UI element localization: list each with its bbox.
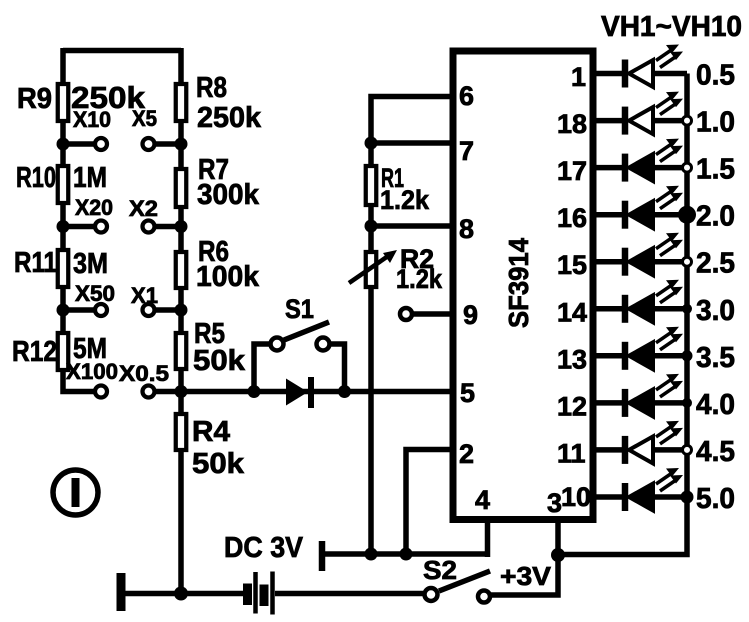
junction bus row 3.0 xyxy=(682,304,692,314)
wire pin stub row 4.5 xyxy=(593,447,622,453)
LED VH8 xyxy=(625,374,683,417)
svg-text:4.5: 4.5 xyxy=(696,436,735,468)
junction bus row 2.5 xyxy=(683,257,692,266)
potentiometer R2 xyxy=(349,250,397,287)
svg-text:R11: R11 xyxy=(14,247,57,279)
svg-text:50k: 50k xyxy=(193,345,246,377)
resistor R11 xyxy=(58,250,69,287)
wire pin stub row 2.5 xyxy=(593,259,622,265)
svg-text:1.0: 1.0 xyxy=(696,107,735,139)
wire tap X1 xyxy=(155,307,182,313)
wire tap X20 xyxy=(63,224,95,230)
svg-text:R10: R10 xyxy=(16,162,56,194)
svg-text:+3V: +3V xyxy=(500,561,552,591)
wire ground to battery xyxy=(121,591,243,597)
wire LED VH7 to bus xyxy=(655,353,687,359)
LED VH9 xyxy=(625,421,683,464)
wire left column (R9-R12 chain) xyxy=(63,48,95,392)
junction on left column at X10 xyxy=(57,138,70,151)
svg-text:9: 9 xyxy=(463,300,478,330)
svg-text:2: 2 xyxy=(459,439,474,469)
svg-text:17: 17 xyxy=(557,156,587,186)
svg-text:4.0: 4.0 xyxy=(696,389,735,421)
figure number (1) xyxy=(53,470,98,515)
svg-text:300k: 300k xyxy=(197,179,260,211)
resistor R7 xyxy=(176,169,187,207)
wire pin stub row 1.0 xyxy=(593,118,622,124)
svg-text:S2: S2 xyxy=(423,555,457,585)
wire pin stub row 5.0 xyxy=(593,494,622,500)
terminal circle X20 xyxy=(95,221,107,233)
wire right column (R8-R5-R4 chain) xyxy=(178,48,184,594)
LED VH7 xyxy=(625,327,683,370)
junction on right column at X2 xyxy=(175,220,188,233)
wire LED VH10 to bus xyxy=(655,494,687,500)
wire LED VH9 to bus xyxy=(655,447,687,453)
resistor R10 xyxy=(58,166,69,203)
diode VD1 xyxy=(286,377,311,408)
wire LED VH1 to bus xyxy=(655,71,687,77)
resistor R6 xyxy=(176,252,187,288)
terminal circle X1 xyxy=(143,304,155,316)
LED VH4 xyxy=(625,186,683,229)
svg-text:250k: 250k xyxy=(197,102,262,134)
node R1 top (pins 6,7) xyxy=(365,137,378,150)
junction bus row 1.5 xyxy=(683,163,692,172)
resistor R12 xyxy=(58,333,69,370)
junction S1 right on main wire xyxy=(338,385,351,398)
svg-text:7: 7 xyxy=(459,136,474,166)
wire IC pin 6 to R1 top node xyxy=(371,97,453,141)
svg-text:1.2k: 1.2k xyxy=(380,185,430,215)
svg-text:R12: R12 xyxy=(12,336,57,368)
terminal bar left of supply rail xyxy=(319,541,326,571)
resistor R8 xyxy=(176,84,187,121)
svg-text:5.0: 5.0 xyxy=(696,483,735,515)
svg-text:0.5: 0.5 xyxy=(696,60,735,92)
svg-text:1.2k: 1.2k xyxy=(396,264,443,294)
junction S1 left on main wire xyxy=(248,385,261,398)
node R1 bottom / R2 top (pin 8) xyxy=(365,220,378,233)
svg-text:11: 11 xyxy=(557,438,586,468)
terminal circle X50 xyxy=(95,304,107,316)
wire S1 left branch xyxy=(254,344,269,392)
wire LED VH6 to bus xyxy=(655,306,687,312)
svg-text:3.0: 3.0 xyxy=(696,295,735,327)
svg-text:3: 3 xyxy=(547,488,562,518)
svg-text:13: 13 xyxy=(557,344,587,374)
terminal circle X2 xyxy=(143,221,155,233)
svg-text:X1: X1 xyxy=(131,283,158,308)
wire LED VH4 to bus xyxy=(655,212,687,218)
junction R2 chain on supply rail xyxy=(365,548,378,561)
svg-text:X10: X10 xyxy=(73,107,111,132)
terminal circle X0.5 xyxy=(143,386,155,398)
node +3V (pin 3 / bus / S2) xyxy=(551,548,565,562)
svg-text:4: 4 xyxy=(475,485,490,515)
junction bus row 1.0 xyxy=(683,116,692,125)
svg-text:X2: X2 xyxy=(129,196,158,221)
svg-text:R9: R9 xyxy=(17,83,52,115)
wire tap X0.5 xyxy=(155,389,182,395)
junction on right column at X5 xyxy=(175,138,188,151)
svg-text:X5: X5 xyxy=(132,106,157,131)
wire IC pin 2 down to supply rail xyxy=(406,450,453,555)
svg-text:8: 8 xyxy=(459,214,474,244)
wire battery to S2 xyxy=(275,591,423,597)
terminal circle X5 xyxy=(143,138,155,150)
svg-text:5: 5 xyxy=(460,378,475,408)
svg-text:50k: 50k xyxy=(192,448,245,480)
wire pin 9 stub xyxy=(412,311,453,317)
svg-text:14: 14 xyxy=(557,297,587,327)
LED VH3 xyxy=(625,139,683,182)
resistor R9 xyxy=(58,84,69,121)
wire node X0.5 to IC pin 5 xyxy=(181,389,453,395)
LED VH5 xyxy=(625,233,683,276)
svg-text:10: 10 xyxy=(561,482,591,512)
wire LED VH2 to bus xyxy=(655,118,687,124)
junction pin 2 wire on supply rail xyxy=(400,548,413,561)
wire pin stub row 1.5 xyxy=(593,165,622,171)
svg-text:X100: X100 xyxy=(66,359,118,384)
svg-text:R8: R8 xyxy=(196,72,227,104)
resistor R4 xyxy=(176,414,187,450)
wire LED VH8 to bus xyxy=(655,400,687,406)
wire supply rail row (pins 2,4, R2 bottom) xyxy=(322,551,488,557)
wire IC pin 7 to R1 top node xyxy=(371,140,453,146)
wire pin stub row 0.5 xyxy=(593,71,622,77)
junction on left column at X50 xyxy=(57,304,70,317)
op-amp/driver IC SF3914 xyxy=(453,51,593,520)
svg-text:3.5: 3.5 xyxy=(696,342,735,374)
svg-text:2.0: 2.0 xyxy=(696,201,735,233)
svg-text:X50: X50 xyxy=(75,281,115,306)
wire tap X10 xyxy=(63,141,95,147)
terminal circle X100 xyxy=(95,386,107,398)
svg-text:15: 15 xyxy=(557,250,587,280)
wire S2 to +3V node xyxy=(491,520,558,596)
wire pin stub row 3.0 xyxy=(593,306,622,312)
svg-text:SF3914: SF3914 xyxy=(503,238,534,328)
junction on left column at X20 xyxy=(57,220,70,233)
resistor R1 xyxy=(366,166,377,205)
wire tap X50 xyxy=(63,307,95,313)
terminal circle X10 xyxy=(95,138,107,150)
svg-text:X0.5: X0.5 xyxy=(119,361,169,386)
wire pin stub row 3.5 xyxy=(593,353,622,359)
svg-text:DC 3V: DC 3V xyxy=(224,532,304,564)
junction bus row 3.5 xyxy=(682,350,693,361)
wire IC pin 8 to R1/R2 node xyxy=(371,223,453,229)
switch S2 xyxy=(425,571,491,603)
svg-text:X20: X20 xyxy=(75,195,113,220)
wire LED anode bus xyxy=(558,74,687,555)
junction R4 chain on bottom wire xyxy=(174,587,188,601)
LED VH6 xyxy=(625,280,683,323)
svg-text:3M: 3M xyxy=(73,248,108,280)
wire tap X2 xyxy=(155,224,182,230)
svg-text:VH1~VH10: VH1~VH10 xyxy=(601,11,742,43)
svg-text:2.5: 2.5 xyxy=(696,248,735,280)
svg-text:R4: R4 xyxy=(192,416,230,448)
junction bus row 5.0 xyxy=(681,491,694,504)
svg-text:12: 12 xyxy=(557,391,587,421)
wire pin stub row 4.0 xyxy=(593,400,622,406)
ground bar left xyxy=(117,573,126,611)
svg-text:1.5: 1.5 xyxy=(696,154,735,186)
junction on right column at X0.5 xyxy=(175,385,188,398)
junction bus row 2.0 xyxy=(678,206,696,224)
wire R1/R2 chain vertical xyxy=(368,143,374,554)
wire IC pin 4 down to supply rail xyxy=(485,520,491,558)
terminal circle pin 9 xyxy=(400,308,412,320)
junction on right column at X1 xyxy=(175,304,188,317)
svg-text:S1: S1 xyxy=(285,294,314,324)
battery GB1 DC 3V xyxy=(243,572,273,615)
svg-text:18: 18 xyxy=(557,109,587,139)
svg-text:1M: 1M xyxy=(73,162,107,194)
svg-text:6: 6 xyxy=(459,81,474,111)
junction bus row 4.5 xyxy=(683,445,692,454)
wire LED VH3 to bus xyxy=(655,165,687,171)
wire top bus joining R9 and R8 columns xyxy=(63,48,181,54)
svg-text:1: 1 xyxy=(571,62,586,92)
LED VH1 xyxy=(625,45,683,88)
resistor R5 xyxy=(176,333,187,369)
svg-text:16: 16 xyxy=(557,203,587,233)
wire tap X5 xyxy=(155,141,182,147)
LED VH10 xyxy=(625,468,683,511)
svg-text:100k: 100k xyxy=(196,261,260,293)
switch S1 xyxy=(271,322,330,351)
wire pin stub row 2.0 xyxy=(593,212,622,218)
wire S1 right branch xyxy=(331,344,345,392)
wire LED VH5 to bus xyxy=(655,259,687,265)
LED VH2 xyxy=(625,92,683,135)
junction bus row 4.0 xyxy=(682,398,692,408)
